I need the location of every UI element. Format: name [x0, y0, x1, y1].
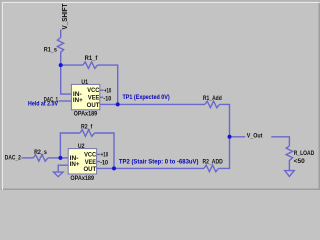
wire node B to U2 IN- — [60, 157, 68, 159]
wire U1 VEE stub — [100, 96, 103, 98]
svg-text:R1_Add: R1_Add — [203, 96, 222, 102]
svg-text:TP1 (Expected 0V): TP1 (Expected 0V) — [123, 95, 170, 101]
wire R2_f to U2 OUT node — [95, 133, 115, 168]
svg-text:U1: U1 — [81, 80, 88, 86]
svg-text:R2_s: R2_s — [34, 150, 47, 156]
junction node A — [59, 63, 63, 67]
svg-text:+10: +10 — [101, 153, 109, 159]
svg-text:R_LOAD: R_LOAD — [294, 151, 315, 157]
resistor R1_Add body — [205, 101, 220, 108]
op-amp U1 — [71, 80, 100, 118]
ground at U2 IN+ — [54, 172, 64, 177]
junction node TP2 — [112, 166, 116, 170]
wire U1 VCC stub — [100, 89, 104, 91]
svg-text:VCC: VCC — [87, 88, 100, 94]
svg-text:OUT: OUT — [87, 103, 100, 109]
svg-text:OPAx189: OPAx189 — [74, 112, 98, 118]
svg-text:-10: -10 — [100, 161, 109, 167]
wire node A to U1 IN- — [61, 65, 72, 94]
svg-text:V_SHIFT: V_SHIFT — [62, 3, 69, 30]
svg-text:V_Out: V_Out — [247, 133, 263, 139]
svg-text:IN+: IN+ — [70, 162, 80, 168]
svg-text:<50: <50 — [294, 159, 306, 165]
wire U2 VCC stub — [97, 153, 101, 155]
svg-text:VEE: VEE — [88, 96, 99, 102]
svg-text:R1_f: R1_f — [85, 56, 99, 62]
wire node B up to R2_f — [60, 133, 80, 158]
wire U2 IN+ to ground — [58, 165, 68, 172]
junction node TP1 — [116, 102, 120, 106]
wire node V_Out to label — [230, 136, 246, 138]
resistor R1_s body — [57, 38, 63, 66]
ground below R_LOAD — [285, 171, 295, 177]
svg-text:OUT: OUT — [84, 167, 97, 173]
svg-text:TP2 (Stair Step: 0 to -683uV): TP2 (Stair Step: 0 to -683uV) — [119, 159, 199, 165]
wire U1 OUT to R1_Add — [100, 103, 205, 105]
svg-text:Held at 2.5V: Held at 2.5V — [28, 101, 58, 107]
svg-text:+10: +10 — [104, 89, 112, 95]
svg-text:R1_s: R1_s — [44, 48, 58, 54]
resistor R2_f body — [80, 130, 95, 137]
svg-text:OPAx189: OPAx189 — [70, 176, 94, 182]
op-amp U2 — [68, 144, 97, 182]
wire R1_f to OUT node — [98, 65, 118, 104]
svg-text:R2_f: R2_f — [81, 125, 93, 131]
svg-text:VEE: VEE — [85, 160, 96, 166]
resistor R1_f body — [83, 62, 98, 69]
wire V_SHIFT stem — [60, 30, 62, 38]
wire V_Out label to R_LOAD — [271, 137, 289, 146]
wire DAC_2 to R2_s — [21, 157, 33, 159]
wire node A to R1_f — [61, 64, 83, 66]
resistor R_LOAD body — [286, 146, 292, 171]
junction node B — [58, 156, 62, 160]
svg-text:U2: U2 — [78, 144, 85, 150]
wire R2_ADD to node V_Out — [219, 137, 230, 169]
junction node V_Out — [228, 135, 232, 139]
frame bevel — [0, 0, 320, 190]
resistor R2_ADD body — [204, 165, 219, 172]
svg-text:DAC_2: DAC_2 — [5, 155, 22, 161]
wire R2_s to node B — [48, 157, 61, 159]
wire R1_Add to node V_Out — [220, 104, 230, 136]
svg-text:VCC: VCC — [84, 152, 97, 158]
wire DAC_1 to U1 IN+ — [59, 100, 72, 102]
svg-text:IN+: IN+ — [73, 98, 83, 104]
wire U2 OUT to R2_ADD — [97, 167, 204, 169]
svg-text:-10: -10 — [103, 96, 112, 102]
wire U2 VEE stub — [97, 161, 100, 163]
resistor R2_s body — [33, 155, 48, 162]
svg-text:R2_ADD: R2_ADD — [203, 159, 224, 165]
